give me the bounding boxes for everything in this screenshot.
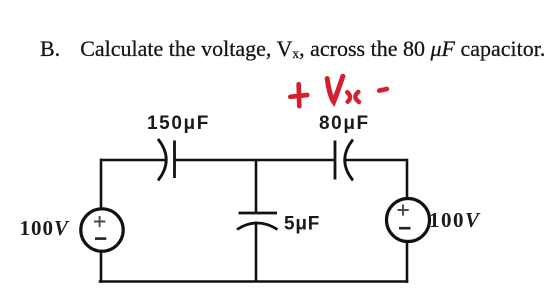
wire: right vertical upper (right corner to V2 top): [406, 159, 409, 198]
source V1: circle body (100V left): [81, 209, 123, 251]
source V1: plus sign: [94, 216, 105, 227]
wire: top middle segment (C1 to C2): [175, 159, 335, 162]
capacitor C1 150uF: curved plate: [158, 139, 166, 181]
capacitor C1 150uF: straight plate: [173, 141, 176, 179]
capacitor C2 80uF: curved plate: [345, 140, 353, 181]
svg-text:100V: 100V: [429, 208, 481, 232]
wire: left vertical lower (V1 bottom to bottom corner): [100, 251, 101, 283]
source V2: circle body (100V right): [387, 199, 430, 242]
wire: top right segment (C2 to right corner): [345, 159, 408, 162]
wire: top left segment (left corner to C1): [100, 159, 165, 162]
capacitor C2 80uF: straight plate: [334, 141, 337, 180]
title: problem statement: [40, 36, 545, 62]
wire: left vertical upper (corner to V1 top): [100, 159, 103, 209]
svg-text:100V: 100V: [20, 216, 71, 240]
wire: bottom segment: [99, 280, 409, 283]
source V1: minus sign: [95, 237, 106, 240]
annotation: red handwritten V of Vx: [327, 76, 343, 102]
annotation: red plus sign (left of Vx): [290, 84, 307, 106]
svg-text:150μF: 150μF: [147, 113, 210, 134]
wire: right vertical lower (V2 bottom to bottom corner): [406, 242, 409, 283]
capacitor C3 5uF: straight top plate: [239, 212, 278, 215]
svg-text:80μF: 80μF: [319, 113, 370, 134]
svg-text:5μF: 5μF: [284, 214, 320, 235]
wire: middle vertical lower (C3 bottom plate to bottom wire): [255, 222, 258, 282]
capacitor C3 5uF: curved bottom plate: [237, 223, 278, 230]
annotation: red handwritten subscript x of Vx: [347, 92, 359, 102]
source V2: plus sign: [398, 205, 409, 216]
annotation: red minus sign (right of Vx): [379, 89, 387, 91]
wire: middle vertical upper (top node to C3 top plate): [255, 160, 258, 213]
source V2: minus sign: [399, 227, 411, 230]
